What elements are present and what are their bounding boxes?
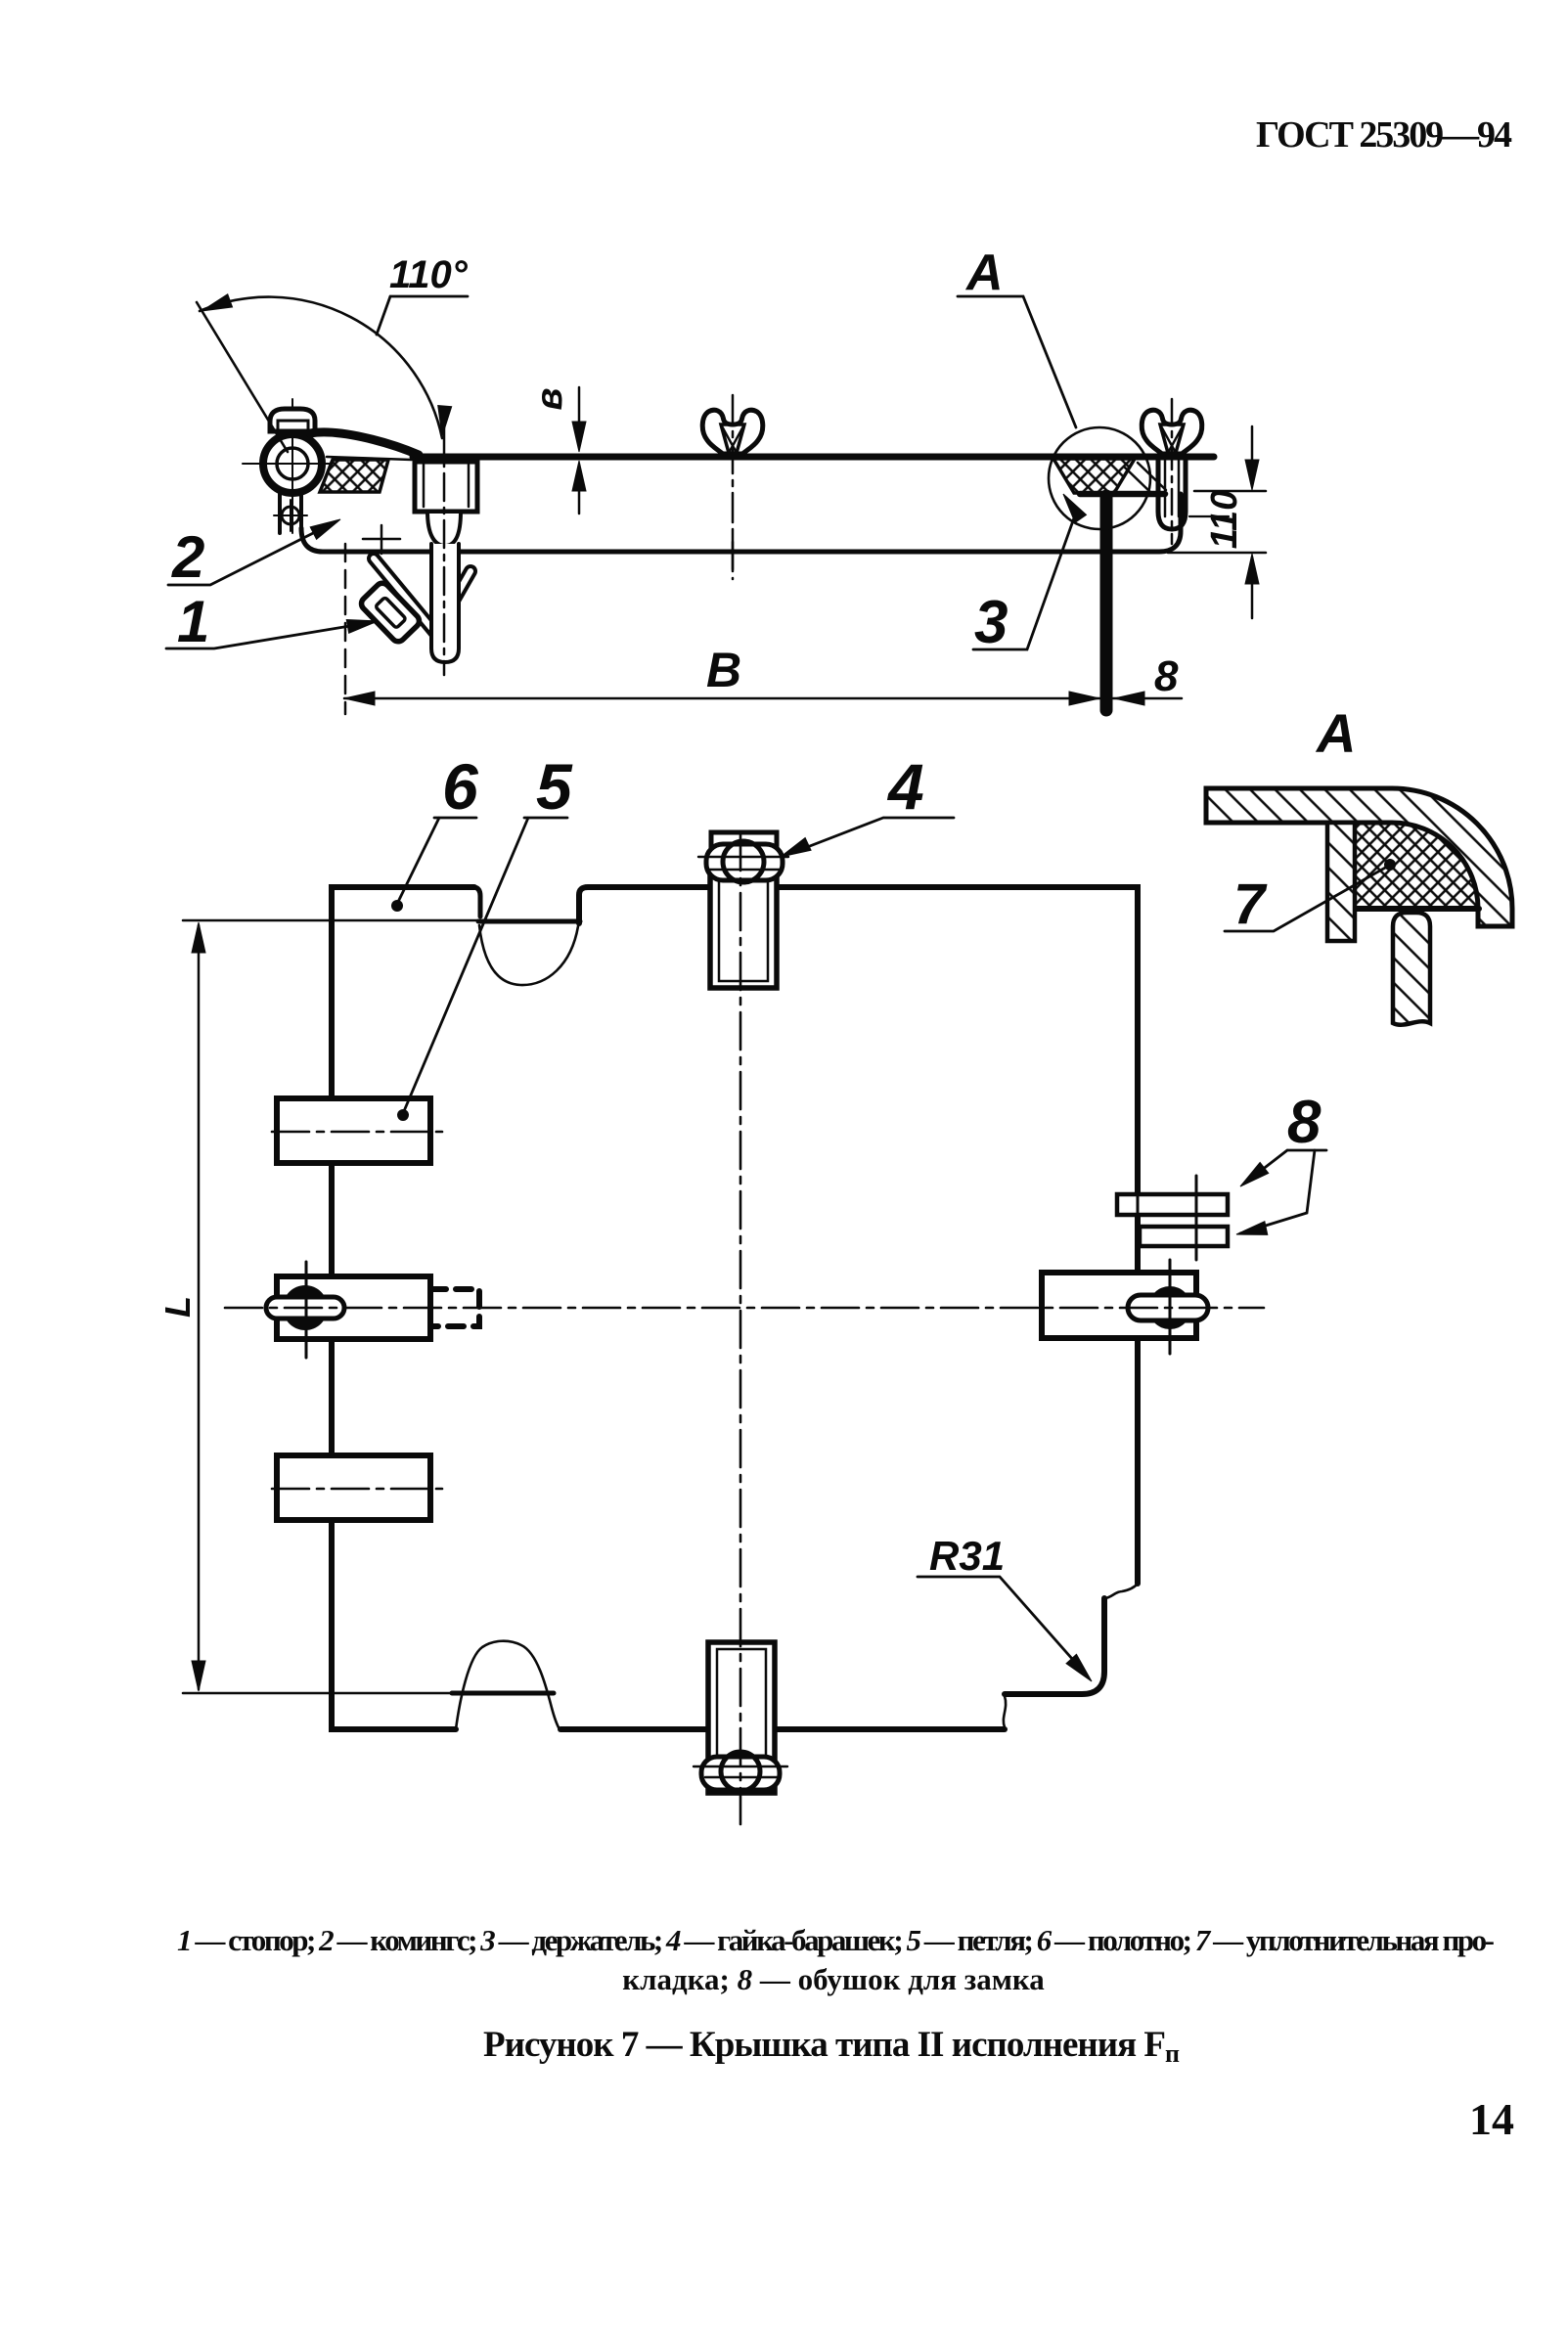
svg-text:110°: 110°: [389, 253, 469, 296]
svg-text:1: 1: [177, 589, 209, 654]
svg-text:A: A: [1315, 702, 1356, 764]
svg-text:6: 6: [442, 750, 479, 823]
svg-text:A: A: [964, 245, 1004, 301]
svg-text:3: 3: [974, 589, 1008, 656]
svg-text:1 — стопор; 2 — комингс; 3 — д: 1 — стопор; 2 — комингс; 3 — держатель; …: [177, 1923, 1495, 1957]
svg-text:8: 8: [1287, 1089, 1322, 1156]
svg-text:110: 110: [1204, 490, 1245, 550]
svg-text:14: 14: [1469, 2094, 1514, 2144]
svg-text:8: 8: [1154, 652, 1179, 700]
svg-text:4: 4: [886, 750, 924, 823]
svg-text:B: B: [706, 643, 741, 697]
svg-text:7: 7: [1233, 872, 1268, 936]
svg-text:L: L: [157, 1296, 198, 1318]
svg-text:Рисунок 7 — Крышка типа II исп: Рисунок 7 — Крышка типа II исполнения Fп: [483, 2025, 1180, 2068]
svg-text:5: 5: [536, 750, 573, 823]
svg-text:в: в: [529, 388, 570, 411]
svg-text:R31: R31: [929, 1533, 1005, 1579]
svg-text:2: 2: [171, 524, 204, 590]
svg-text:ГОСТ 25309—94: ГОСТ 25309—94: [1256, 114, 1512, 156]
svg-text:кладка; 8 — обушок для замка: кладка; 8 — обушок для замка: [622, 1962, 1045, 1996]
